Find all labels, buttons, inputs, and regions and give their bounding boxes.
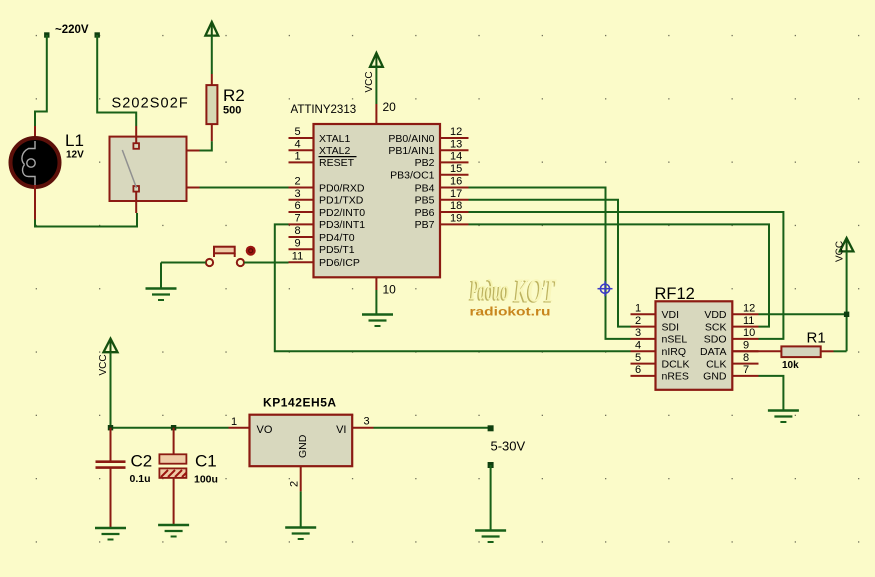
svg-text:100u: 100u [194,474,218,486]
svg-text:GND: GND [703,371,727,383]
svg-text:PB1/AIN1: PB1/AIN1 [388,145,434,157]
svg-text:C1: C1 [195,452,217,471]
wire [490,465,492,530]
svg-text:PD0/RXD: PD0/RXD [319,182,365,194]
svg-text:PB5: PB5 [415,195,435,207]
wire [469,212,784,339]
svg-text:17: 17 [450,188,462,200]
svg-text:DCLK: DCLK [662,358,690,370]
wire [244,262,289,264]
junction [844,312,849,317]
svg-text:VI: VI [336,424,346,436]
terminal origin right [95,32,100,37]
svg-text:8: 8 [294,225,300,237]
wire [759,376,784,410]
svg-text:1: 1 [294,151,300,163]
svg-text:RESET: RESET [319,157,355,169]
pushbutton SB1 [206,246,256,266]
wire [469,188,631,339]
svg-text:3: 3 [364,416,370,428]
svg-text:PD4/T0: PD4/T0 [319,232,355,244]
resistor R1 [732,330,833,372]
svg-text:VO: VO [257,424,273,436]
svg-text:PB3/OC1: PB3/OC1 [390,170,435,182]
wire [300,491,302,527]
wire [97,35,136,126]
svg-text:PB7: PB7 [415,219,435,231]
terminal [488,462,494,468]
wire [160,263,162,288]
svg-text:2: 2 [289,481,301,487]
power VCC [364,53,383,93]
svg-text:18: 18 [450,200,462,212]
svg-text:5-30V: 5-30V [491,439,526,454]
svg-text:R1: R1 [807,330,826,347]
wire [834,350,847,352]
svg-text:C2: C2 [131,452,153,471]
wire [211,36,213,74]
ground [362,315,393,327]
svg-text:PB2: PB2 [415,157,435,169]
svg-text:3: 3 [294,188,300,200]
ground [768,411,799,423]
wire [200,187,289,189]
terminal 5-30V [488,425,494,431]
junction [108,425,113,430]
svg-text:VCC: VCC [98,354,109,375]
svg-text:PD2/INT0: PD2/INT0 [319,207,365,219]
wire [275,224,631,351]
wire [35,213,137,227]
svg-text:nIRQ: nIRQ [662,346,687,358]
svg-text:ATTINY2313: ATTINY2313 [291,104,357,116]
wire [110,352,112,428]
net label ~220V [55,24,89,36]
junction [171,425,176,430]
capacitor C2 [96,428,153,528]
svg-text:PD6/ICP: PD6/ICP [319,257,360,269]
svg-text:12: 12 [450,126,462,138]
svg-text:nSEL: nSEL [662,334,688,346]
svg-text:11: 11 [743,315,754,327]
svg-text:КОТ: КОТ [513,273,556,310]
svg-text:1: 1 [635,303,641,315]
svg-text:XTAL2: XTAL2 [319,145,350,157]
svg-text:12: 12 [743,303,755,315]
svg-text:10: 10 [743,327,755,339]
svg-text:12V: 12V [66,150,84,161]
svg-text:nRES: nRES [662,371,689,383]
svg-text:3: 3 [635,327,641,339]
svg-text:5: 5 [294,126,300,138]
svg-text:radiokot.ru: radiokot.ru [470,307,551,319]
svg-text:VCC: VCC [835,241,846,262]
svg-text:13: 13 [450,138,462,150]
regulator U4 KP142EH5A [229,396,374,492]
svg-text:15: 15 [450,163,462,175]
svg-text:9: 9 [743,340,749,352]
optocoupler U2 S202S02F [110,96,200,214]
svg-text:10: 10 [383,283,397,297]
node marker [598,281,613,296]
ground [95,528,126,540]
svg-text:16: 16 [450,176,462,188]
svg-text:PB6: PB6 [415,207,435,219]
wire [35,35,47,126]
resistor R2 [206,74,244,141]
IC U1 ATTINY2313 [289,100,469,297]
wire [374,427,491,429]
svg-text:6: 6 [635,364,641,376]
wire [846,251,848,351]
svg-text:VDI: VDI [662,309,680,321]
wire [759,313,847,315]
svg-text:~220V: ~220V [55,24,89,36]
svg-text:KP142EH5A: KP142EH5A [263,396,337,410]
power VCC [98,339,118,376]
svg-text:S202S02F: S202S02F [112,96,189,112]
svg-text:SCK: SCK [705,321,727,333]
svg-text:PD5/T1: PD5/T1 [319,244,355,256]
svg-text:9: 9 [294,237,300,249]
svg-text:L1: L1 [65,131,84,150]
svg-text:RF12: RF12 [655,285,695,303]
svg-text:20: 20 [383,100,397,114]
svg-text:PB4: PB4 [415,182,435,194]
svg-text:R2: R2 [223,86,245,105]
ground [475,531,506,543]
svg-text:500: 500 [223,105,241,117]
RF module U3 RF12 [631,285,759,390]
svg-text:SDI: SDI [662,321,680,333]
svg-text:Радио: Радио [470,274,509,307]
svg-text:VCC: VCC [364,71,375,92]
ground [146,289,177,301]
svg-text:0.1u: 0.1u [130,473,151,485]
svg-text:10k: 10k [782,360,799,371]
capacitor C1 [159,428,218,525]
wire [111,427,229,429]
wire [375,290,377,314]
wire [375,67,377,104]
svg-text:GND: GND [297,434,309,458]
power VCC [835,238,854,262]
wire [161,262,206,264]
svg-text:CLK: CLK [706,358,726,370]
svg-text:11: 11 [292,250,303,262]
ground [158,525,189,537]
svg-text:2: 2 [635,315,641,327]
svg-text:SDO: SDO [704,334,727,346]
ground [285,528,316,540]
svg-text:14: 14 [450,151,462,163]
svg-text:4: 4 [635,340,641,352]
svg-text:VDD: VDD [704,309,727,321]
svg-text:PD1/TXD: PD1/TXD [319,195,364,207]
svg-text:7: 7 [294,213,300,225]
svg-text:5: 5 [635,352,641,364]
power VCC [205,22,218,36]
svg-text:6: 6 [294,200,300,212]
svg-text:2: 2 [294,176,300,188]
terminal origin left [44,32,49,37]
svg-text:XTAL1: XTAL1 [319,133,350,145]
svg-text:7: 7 [743,364,749,376]
net label 5-30V [491,439,526,454]
svg-text:DATA: DATA [700,346,726,358]
svg-text:4: 4 [294,138,300,150]
lamp L1 [11,126,85,220]
svg-text:19: 19 [450,213,462,225]
wire [469,224,770,326]
svg-text:PD3/INT1: PD3/INT1 [319,219,365,231]
svg-text:8: 8 [743,352,749,364]
svg-text:1: 1 [231,416,237,428]
svg-text:PB0/AIN0: PB0/AIN0 [388,133,434,145]
wire [200,141,212,150]
wire [469,200,631,327]
